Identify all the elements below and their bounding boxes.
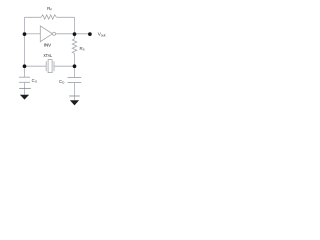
- svg-text:CD: CD: [59, 79, 65, 85]
- svg-text:XTAL: XTAL: [43, 53, 52, 59]
- wire: crystal right lead: [54, 65, 75, 67]
- terminal dot Vout: [88, 32, 92, 36]
- capacitor C1 (left) bottom plate: [19, 81, 30, 83]
- node D: junction dot right crystal node: [73, 64, 77, 68]
- wire: right column cap lead: [74, 77, 76, 79]
- resistor Rf zigzag: [41, 15, 57, 19]
- svg-text:RS: RS: [80, 46, 85, 52]
- op-amp U1: inverter triangle: [40, 26, 52, 42]
- ground (left) T-bar: [19, 87, 31, 89]
- svg-text:CG: CG: [32, 78, 38, 84]
- wire: inverter output to Vout: [56, 33, 89, 35]
- wire: top-right horizontal from Rf: [57, 16, 75, 18]
- inverter bubble: [53, 32, 56, 35]
- wire: left column vertical (input node rail): [24, 17, 26, 77]
- crystal X1 right plate: [53, 61, 55, 71]
- ground (left) triangle: [20, 95, 29, 100]
- ground (right) triangle: [70, 100, 79, 105]
- crystal X1 left plate: [45, 61, 47, 71]
- capacitor C2 (right) bottom plate: [68, 82, 82, 84]
- svg-text:INV: INV: [44, 43, 52, 49]
- wire: left cap to ground: [24, 82, 26, 95]
- resistor Rs zigzag (vertical): [72, 39, 76, 54]
- wire: inverter input: [25, 33, 41, 35]
- crystal X1 body: [48, 60, 52, 73]
- wire: crystal left lead: [25, 65, 47, 67]
- background: [0, 0, 120, 111]
- svg-text:RF: RF: [47, 6, 52, 12]
- wire: right column top segment: [74, 17, 76, 39]
- wire: right cap to ground: [74, 83, 76, 101]
- wire: right column below Rs: [74, 54, 76, 78]
- capacitor C2 (right) top plate: [68, 77, 82, 79]
- svg-text:Vout: Vout: [98, 32, 106, 38]
- wire: top-left horizontal to Rf: [25, 16, 42, 18]
- node A: junction dot at inverter input: [23, 32, 27, 36]
- node B: junction dot at output: [73, 32, 77, 36]
- capacitor C1 (left) top plate: [19, 76, 30, 78]
- ground (right) T-bar: [69, 95, 80, 97]
- node C: junction dot left crystal node: [23, 64, 27, 68]
